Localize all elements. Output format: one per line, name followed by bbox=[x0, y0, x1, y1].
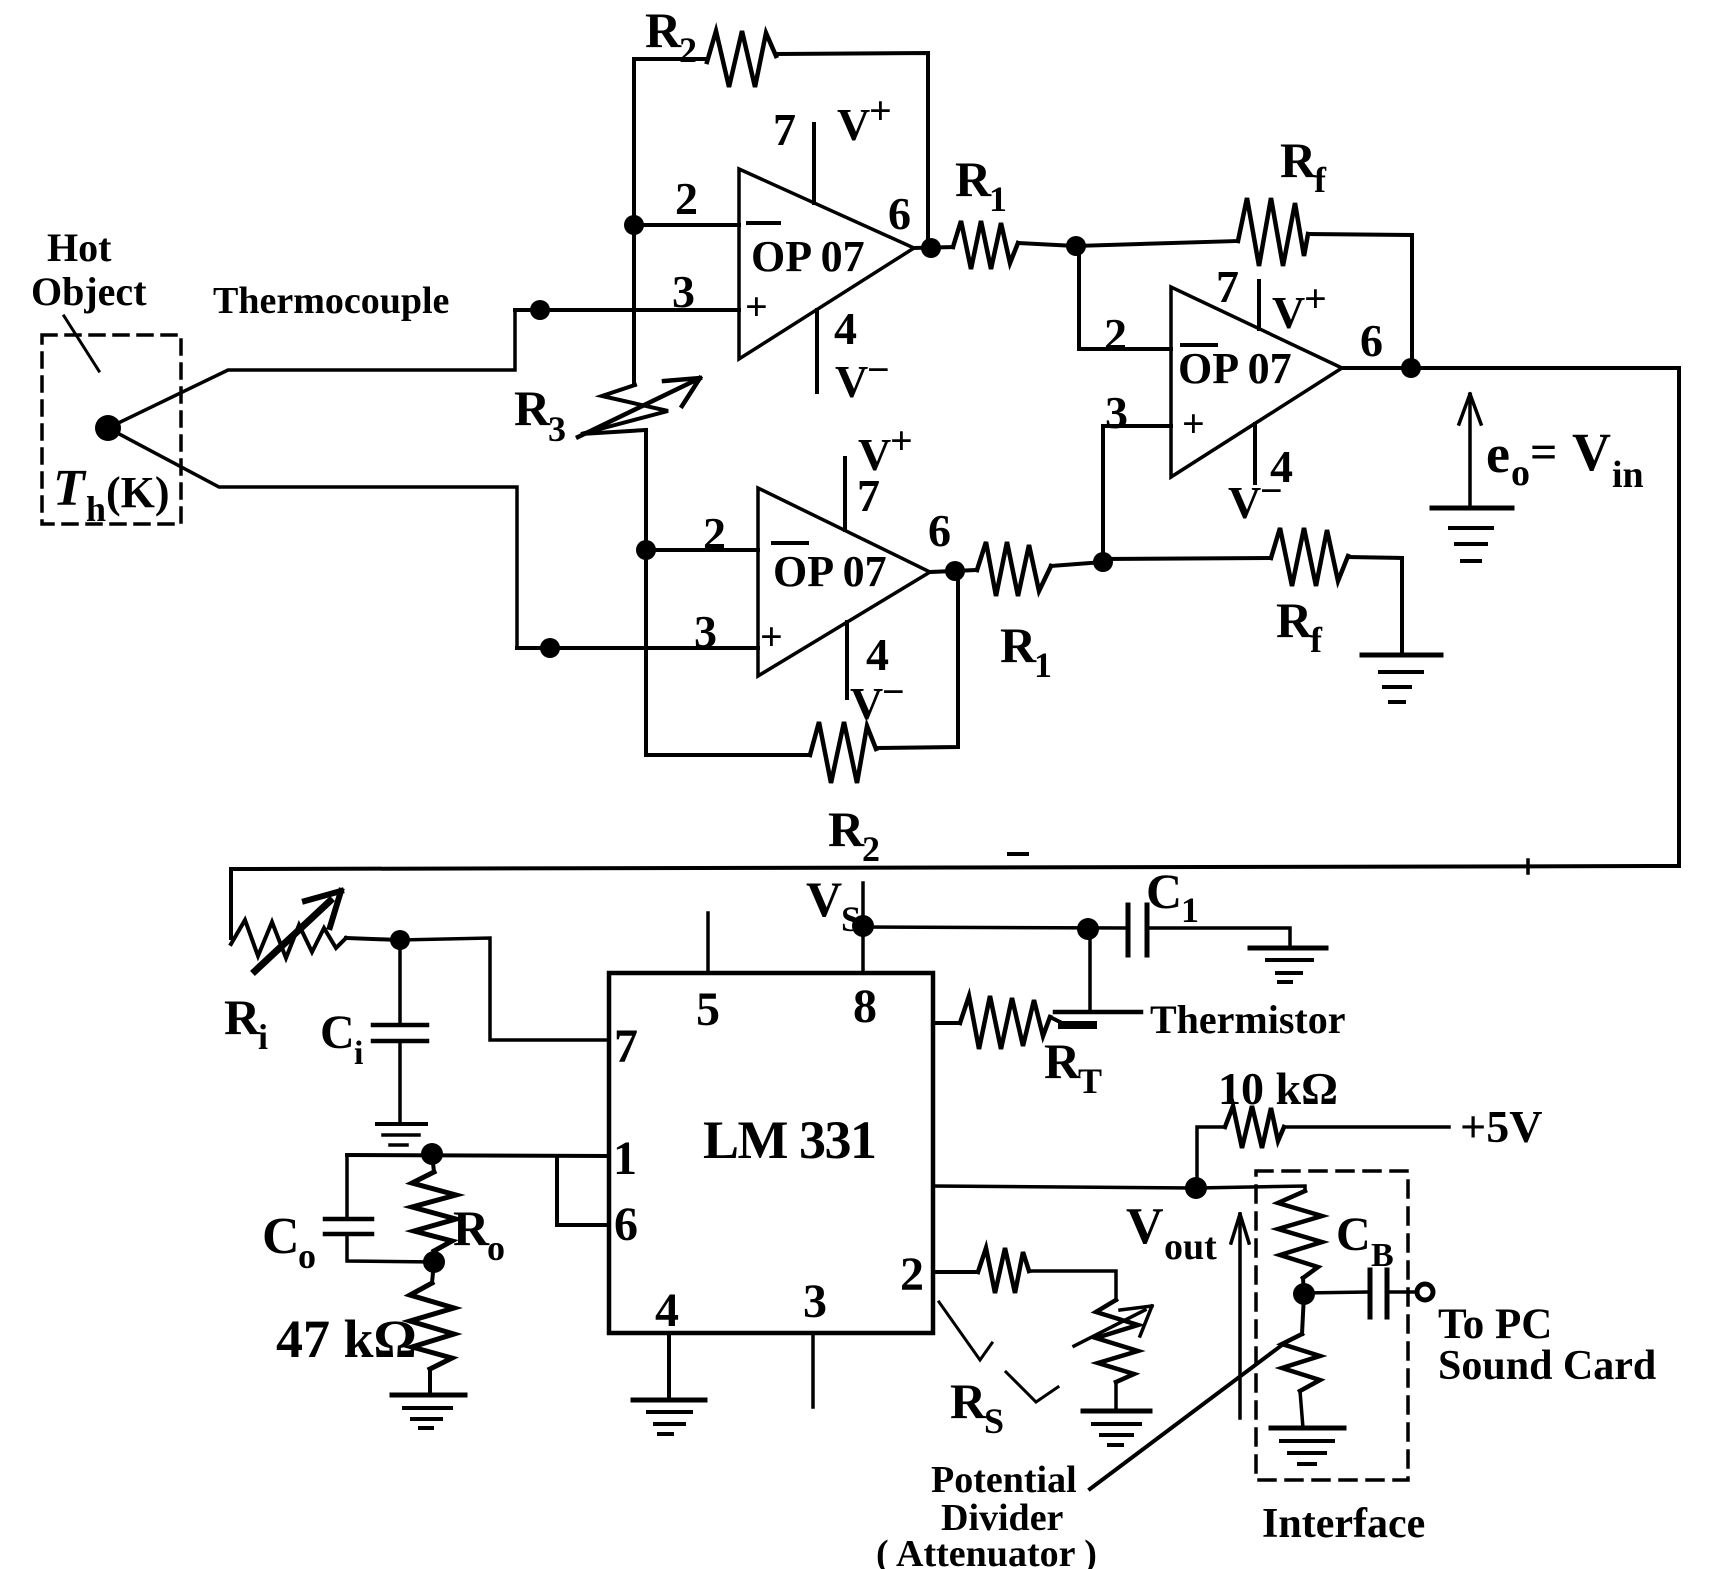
wire output bottom horizontal bbox=[231, 860, 1679, 873]
node pin1 junction bbox=[421, 1143, 443, 1165]
wire op1 pin3 bbox=[515, 308, 739, 312]
svg-text:Hot: Hot bbox=[47, 225, 112, 270]
svg-text:7: 7 bbox=[857, 470, 880, 521]
svg-text:7: 7 bbox=[614, 1020, 638, 1073]
svg-text:2: 2 bbox=[1104, 309, 1127, 360]
resistor Rf lower bbox=[1103, 528, 1402, 660]
wire op2 inverting vertical bbox=[644, 430, 648, 755]
capacitor Co bbox=[262, 1155, 434, 1276]
RS label and bracket bbox=[939, 1302, 1058, 1441]
svg-text:2: 2 bbox=[900, 1248, 924, 1301]
svg-text:+5V: +5V bbox=[1460, 1101, 1542, 1152]
svg-text:R: R bbox=[1280, 132, 1317, 188]
svg-text:R: R bbox=[514, 380, 551, 436]
wire to LM331 pin7 bbox=[400, 938, 609, 1040]
svg-text:2: 2 bbox=[675, 173, 698, 224]
node op2 pin2 junction bbox=[636, 540, 656, 560]
svg-text:To PC: To PC bbox=[1438, 1301, 1552, 1348]
svg-text:V: V bbox=[1272, 287, 1305, 338]
svg-text:f: f bbox=[1310, 620, 1323, 660]
svg-text:T: T bbox=[53, 460, 87, 517]
svg-text:2: 2 bbox=[703, 508, 726, 559]
svg-text:3: 3 bbox=[1105, 387, 1128, 438]
svg-text:OP 07: OP 07 bbox=[751, 232, 865, 281]
svg-text:V: V bbox=[1228, 477, 1261, 528]
svg-text:−: − bbox=[882, 669, 905, 714]
svg-text:C: C bbox=[1146, 863, 1182, 919]
svg-text:S: S bbox=[984, 1401, 1004, 1441]
wire LM331 fout bbox=[933, 1186, 1305, 1191]
interface dashed box bbox=[1256, 1171, 1408, 1480]
resistor interface upper bbox=[1278, 1191, 1322, 1294]
ground under eo arrow bbox=[1432, 508, 1512, 561]
svg-text:Sound Card: Sound Card bbox=[1438, 1343, 1656, 1389]
svg-text:V: V bbox=[1572, 422, 1611, 482]
capacitor C1 bbox=[1128, 863, 1290, 955]
svg-text:f: f bbox=[1314, 160, 1327, 200]
svg-text:i: i bbox=[258, 1017, 268, 1057]
node R1 lower junction bbox=[1093, 552, 1113, 572]
svg-text:in: in bbox=[1612, 454, 1644, 496]
svg-text:R: R bbox=[950, 1373, 987, 1429]
minus dash annotation bbox=[1009, 852, 1027, 856]
svg-text:V: V bbox=[835, 356, 868, 407]
svg-text:7: 7 bbox=[773, 104, 796, 155]
svg-text:( Attenuator ): ( Attenuator ) bbox=[876, 1533, 1097, 1569]
svg-text:V: V bbox=[837, 99, 870, 150]
wire LM331 pin1 bbox=[347, 1155, 609, 1156]
svg-text:47 kΩ: 47 kΩ bbox=[276, 1309, 417, 1369]
svg-text:7: 7 bbox=[1216, 261, 1239, 312]
svg-text:6: 6 bbox=[614, 1198, 638, 1251]
resistor Rf upper bbox=[1076, 132, 1412, 368]
thermocouple junction bbox=[95, 415, 121, 441]
svg-text:R: R bbox=[955, 151, 992, 207]
node VS bbox=[806, 871, 874, 939]
svg-text:R: R bbox=[1044, 1033, 1081, 1089]
svg-text:Thermocouple: Thermocouple bbox=[213, 280, 449, 322]
svg-text:1: 1 bbox=[1181, 890, 1199, 930]
IC U4 LM331 bbox=[609, 973, 933, 1337]
svg-text:h: h bbox=[86, 489, 106, 529]
svg-text:3: 3 bbox=[672, 266, 695, 317]
svg-text:4: 4 bbox=[834, 303, 857, 354]
svg-text:out: out bbox=[1164, 1226, 1217, 1268]
capacitor Ci bbox=[320, 940, 427, 1124]
node op2 output bbox=[930, 561, 977, 581]
svg-text:+: + bbox=[890, 418, 913, 463]
ground under Ci bbox=[377, 1124, 426, 1145]
svg-text:3: 3 bbox=[548, 409, 566, 449]
resistor RS horizontal bbox=[978, 1248, 1116, 1300]
svg-text:R: R bbox=[1000, 617, 1037, 673]
node thermistor tap bbox=[1077, 918, 1099, 940]
wire left drop to Ri bbox=[229, 869, 233, 938]
wire op1 pin2 bbox=[634, 223, 739, 227]
node op1 pin3 junction bbox=[530, 300, 550, 320]
svg-text:3: 3 bbox=[694, 606, 717, 657]
svg-text:−: − bbox=[867, 347, 890, 392]
svg-text:e: e bbox=[1486, 424, 1510, 484]
node eo=Vin arrow bbox=[1459, 394, 1644, 508]
svg-text:2: 2 bbox=[679, 30, 697, 70]
svg-text:V: V bbox=[1126, 1198, 1164, 1255]
svg-text:3: 3 bbox=[803, 1275, 827, 1328]
svg-text:V: V bbox=[806, 871, 842, 927]
wire op2 pin3 bbox=[517, 646, 758, 650]
resistor R2 bottom bbox=[646, 571, 958, 869]
node Vout arrow bbox=[1126, 1198, 1249, 1418]
hot object dashed box bbox=[42, 335, 181, 524]
resistor 47k bbox=[276, 1262, 454, 1394]
svg-text:B: B bbox=[1371, 1237, 1394, 1274]
svg-text:OP 07: OP 07 bbox=[773, 547, 887, 596]
svg-text:+: + bbox=[1182, 401, 1205, 446]
svg-text:4: 4 bbox=[655, 1284, 679, 1337]
resistor 10k bbox=[1197, 1063, 1542, 1188]
wire LM331 pin2 bbox=[933, 1270, 978, 1274]
interface label bbox=[1262, 1501, 1425, 1547]
wire LM331 pin6 jog bbox=[557, 1156, 609, 1225]
svg-text:(K): (K) bbox=[106, 468, 170, 517]
svg-text:10 kΩ: 10 kΩ bbox=[1218, 1063, 1338, 1114]
resistor Ro bbox=[412, 1154, 505, 1268]
hot object label bbox=[31, 225, 147, 371]
op-amp U1 bbox=[672, 88, 914, 407]
svg-text:Potential: Potential bbox=[931, 1459, 1077, 1501]
svg-text:5: 5 bbox=[696, 983, 720, 1036]
svg-text:LM 331: LM 331 bbox=[703, 1110, 876, 1170]
wire VS to C1 bbox=[863, 927, 1126, 928]
resistor R3 variable bbox=[514, 378, 700, 449]
ground under 47k bbox=[392, 1395, 465, 1428]
svg-text:+: + bbox=[1304, 276, 1327, 321]
svg-text:2: 2 bbox=[862, 829, 880, 869]
wire output right vertical bbox=[1677, 368, 1681, 866]
svg-text:6: 6 bbox=[888, 188, 911, 239]
ground under RS bbox=[1083, 1411, 1150, 1445]
node Ro bottom junction bbox=[423, 1251, 445, 1273]
node fout junction bbox=[1185, 1177, 1207, 1199]
wire LM331 pin8 stub bbox=[861, 883, 865, 973]
op-amp U3 bbox=[1104, 261, 1383, 528]
resistor R1 upper bbox=[953, 151, 1076, 269]
resistor Ri variable bbox=[224, 891, 346, 1057]
svg-text:6: 6 bbox=[928, 505, 951, 556]
resistor RS variable vertical bbox=[1074, 1300, 1152, 1411]
ground under C1 bbox=[1250, 948, 1326, 982]
node Ri Ci junction bbox=[346, 930, 410, 950]
node op1 pin2 junction bbox=[624, 215, 644, 235]
svg-text:8: 8 bbox=[853, 980, 877, 1033]
wire LM331 pin4 stub bbox=[667, 1333, 671, 1399]
svg-text:o: o bbox=[298, 1236, 316, 1276]
node op2 pin3 junction bbox=[540, 638, 560, 658]
svg-text:R: R bbox=[645, 2, 682, 58]
wire thermocouple upper lead bbox=[108, 310, 515, 428]
svg-text:R: R bbox=[453, 1200, 490, 1256]
svg-text:C: C bbox=[1336, 1208, 1371, 1261]
svg-text:Object: Object bbox=[31, 269, 147, 314]
svg-text:+: + bbox=[745, 284, 768, 329]
svg-text:−: − bbox=[1260, 468, 1283, 513]
svg-text:T: T bbox=[1078, 1061, 1102, 1101]
node To PC terminal bbox=[1417, 1284, 1656, 1389]
wire LM331 pin5 stub bbox=[706, 913, 710, 973]
wire op2 pin2 bbox=[646, 548, 758, 552]
op-amp U2 bbox=[694, 418, 951, 729]
svg-text:+: + bbox=[869, 88, 892, 133]
svg-text:OP 07: OP 07 bbox=[1178, 344, 1292, 393]
wire LM331 pin3 stub bbox=[811, 1333, 815, 1407]
ground under pin4 bbox=[633, 1400, 705, 1434]
resistor R2 top bbox=[634, 2, 928, 248]
thermocouple label bbox=[213, 280, 449, 322]
svg-text:6: 6 bbox=[1360, 315, 1383, 366]
node op1 output bbox=[914, 238, 953, 258]
ground under Rf lower bbox=[1362, 655, 1441, 702]
svg-text:1: 1 bbox=[613, 1132, 637, 1185]
wire op1 inverting vertical bbox=[632, 59, 636, 385]
wire op3 pin2 bbox=[1076, 246, 1171, 349]
node op3 output bbox=[1342, 358, 1679, 378]
ground interface bbox=[1271, 1428, 1344, 1464]
svg-text:1: 1 bbox=[989, 179, 1007, 219]
svg-text:R: R bbox=[828, 801, 865, 857]
svg-text:1: 1 bbox=[1034, 645, 1052, 685]
svg-text:S: S bbox=[841, 899, 861, 939]
wire op3 pin3 bbox=[1103, 426, 1171, 562]
wire thermocouple lower lead bbox=[108, 428, 517, 648]
thermistor RT bbox=[933, 929, 1346, 1101]
node Th(K) label bbox=[53, 460, 170, 529]
node R1 Rf junction bbox=[1066, 236, 1086, 256]
svg-text:R: R bbox=[1276, 592, 1313, 648]
svg-text:Thermistor: Thermistor bbox=[1150, 997, 1346, 1042]
svg-text:C: C bbox=[262, 1208, 300, 1265]
capacitor CB bbox=[1304, 1208, 1416, 1317]
svg-text:C: C bbox=[320, 1006, 355, 1059]
svg-text:Interface: Interface bbox=[1262, 1501, 1425, 1547]
potential divider label bbox=[876, 1345, 1282, 1569]
resistor R1 lower bbox=[977, 542, 1103, 685]
resistor interface lower bbox=[1282, 1294, 1320, 1428]
svg-text:=: = bbox=[1530, 426, 1557, 479]
svg-text:R: R bbox=[224, 989, 261, 1045]
svg-text:i: i bbox=[354, 1035, 363, 1072]
svg-text:+: + bbox=[760, 614, 783, 659]
svg-text:o: o bbox=[487, 1228, 505, 1268]
node interface divider junction bbox=[1293, 1283, 1315, 1305]
svg-text:o: o bbox=[1511, 452, 1530, 494]
